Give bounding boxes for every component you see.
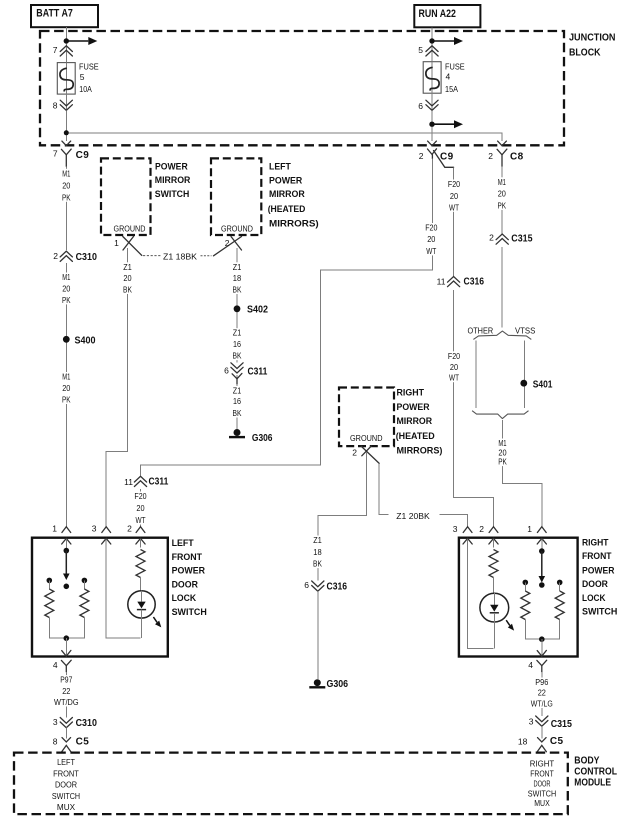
svg-text:PK: PK (62, 295, 71, 305)
svg-text:20: 20 (62, 383, 70, 393)
svg-text:POWER: POWER (172, 566, 206, 576)
svg-text:22: 22 (62, 686, 70, 696)
svg-text:3: 3 (529, 717, 534, 727)
svg-text:WT: WT (426, 246, 436, 256)
ground connector X pin 2 of left mirror (214, 237, 242, 256)
svg-text:1: 1 (52, 524, 57, 534)
ground G306 (upper) (229, 429, 273, 444)
wire Z1 20 BK from mirror switch ground down to left switch pin 3 (106, 248, 127, 527)
svg-text:8: 8 (53, 101, 58, 111)
svg-text:20: 20 (136, 503, 144, 513)
svg-text:FRONT: FRONT (53, 769, 79, 779)
svg-text:C316: C316 (464, 276, 485, 287)
svg-text:11: 11 (437, 277, 446, 287)
body control module dashed box (14, 753, 568, 815)
svg-text:SWITCH: SWITCH (52, 791, 80, 801)
wire P97 22 WT/DG (65, 672, 67, 718)
svg-text:DOOR: DOOR (55, 780, 77, 790)
svg-text:C9: C9 (76, 150, 90, 161)
wire C310-3 to C5 (65, 728, 67, 739)
svg-text:FUSE: FUSE (79, 62, 99, 72)
label P96 22 WT/LG (529, 677, 555, 709)
wire C316-6 down to G306 (317, 591, 319, 679)
svg-text:20: 20 (498, 189, 506, 199)
svg-text:5: 5 (418, 45, 423, 55)
svg-text:C9: C9 (440, 152, 454, 163)
junction block dashed boundary (40, 31, 564, 145)
left switch pin 3 (92, 524, 111, 545)
wire node down to C9 (431, 127, 433, 141)
label Z1 16 BK (231, 328, 244, 361)
right front power door lock switch box (459, 538, 578, 657)
left front door switch mux label (52, 757, 80, 812)
connector C315 pin 3 chevrons (529, 716, 573, 730)
svg-text:BLOCK: BLOCK (569, 46, 601, 58)
ground connector X pin 1 of mirror switch (114, 237, 142, 256)
left power mirror label (268, 162, 319, 230)
svg-text:7: 7 (53, 45, 58, 55)
left switch pin 1 (52, 524, 71, 545)
wire M1 20 PK from C8 down to VTSS split (501, 166, 503, 327)
label F20 20 WT (423, 223, 439, 256)
BCM label (574, 755, 617, 789)
power mirror switch label (155, 162, 191, 201)
cross feed wire to C8 (horizontal) (66, 133, 502, 141)
svg-text:15A: 15A (445, 84, 458, 94)
pin 8 connector chevrons (53, 100, 73, 110)
svg-text:SWITCH: SWITCH (528, 788, 556, 798)
pin 5 connector chevrons (418, 45, 438, 56)
svg-text:SWITCH: SWITCH (172, 607, 207, 617)
svg-text:POWER: POWER (582, 566, 615, 576)
svg-text:MIRRORS): MIRRORS) (269, 218, 319, 229)
svg-text:F20: F20 (448, 351, 460, 361)
svg-text:C311: C311 (248, 366, 268, 377)
ground G306 (lower) (309, 679, 348, 690)
svg-text:MIRROR: MIRROR (155, 175, 191, 186)
svg-text:M1: M1 (498, 177, 506, 187)
svg-text:Z1: Z1 (233, 386, 242, 396)
svg-text:18: 18 (233, 273, 242, 283)
svg-text:S400: S400 (75, 336, 96, 347)
svg-text:GROUND: GROUND (221, 223, 253, 233)
splice S400 (63, 336, 96, 347)
svg-text:20: 20 (450, 362, 458, 372)
left front power door lock switch box (32, 538, 168, 657)
battery feed header box BATT A7 (31, 5, 98, 27)
left switch pin 2 (127, 524, 145, 545)
svg-text:C310: C310 (76, 718, 98, 729)
label M1 20 PK (60, 168, 73, 202)
svg-text:6: 6 (304, 580, 309, 590)
wire from BATT A7 into junction block (65, 27, 67, 38)
svg-text:3: 3 (453, 524, 458, 534)
label Z1 20 BK (121, 262, 134, 295)
right switch pin 4 (528, 650, 546, 671)
svg-text:DOOR: DOOR (534, 778, 551, 788)
svg-text:SWITCH: SWITCH (155, 189, 190, 200)
connector C310 pin 3 chevrons (53, 717, 97, 729)
svg-text:11: 11 (124, 477, 133, 487)
wire Z1 20BK to right switch pin 3 (439, 515, 467, 527)
right power mirror dashed box (339, 388, 394, 447)
svg-text:WT: WT (449, 202, 459, 212)
svg-text:4: 4 (446, 72, 451, 82)
svg-text:FUSE: FUSE (445, 61, 465, 71)
svg-text:20: 20 (427, 234, 435, 244)
svg-text:Z1 18BK: Z1 18BK (163, 251, 197, 261)
wire Z1 18 BK from left mirror ground down to G306 (236, 248, 238, 429)
junction node with right arrow (fused run feed) (429, 120, 463, 128)
svg-text:PK: PK (498, 457, 507, 467)
svg-text:GROUND: GROUND (114, 223, 146, 233)
svg-text:MIRROR: MIRROR (269, 189, 305, 200)
svg-text:GROUND: GROUND (350, 433, 383, 443)
right switch resistor bus and output (525, 620, 559, 640)
right front door switch mux label (528, 759, 556, 809)
svg-text:DOOR: DOOR (582, 579, 608, 589)
wire F20 20 WT from C9-2 down, across to C311-11 and left switch pin 2 (141, 159, 433, 527)
wire node to fuse 4 (431, 44, 433, 62)
svg-text:(HEATED: (HEATED (396, 431, 435, 442)
svg-text:RUN A22: RUN A22 (419, 8, 456, 20)
right switch unlock contact + resistor (557, 580, 563, 586)
svg-text:S402: S402 (247, 305, 268, 316)
svg-text:RIGHT: RIGHT (530, 759, 554, 769)
right switch pin 2 (479, 524, 498, 544)
svg-text:DOOR: DOOR (172, 579, 199, 589)
svg-text:16: 16 (233, 396, 241, 406)
svg-text:F20: F20 (134, 491, 146, 501)
connector C315 pin 2 chevrons (489, 232, 533, 247)
svg-text:RIGHT: RIGHT (582, 538, 609, 548)
svg-text:PK: PK (498, 200, 507, 210)
left switch illumination LED (128, 591, 162, 628)
svg-text:2: 2 (53, 251, 58, 261)
svg-text:WT: WT (449, 373, 459, 383)
svg-text:2: 2 (488, 151, 493, 161)
leader dashes to Z1 18BK label (143, 255, 161, 257)
label F20 20 WT (446, 351, 462, 383)
svg-text:20: 20 (123, 273, 131, 283)
label Z1 18 BK (311, 535, 324, 569)
svg-text:POWER: POWER (269, 175, 302, 186)
connector C310 pin 2 chevrons (53, 250, 97, 263)
fuse 5 10A (57, 62, 99, 95)
svg-text:18: 18 (518, 737, 528, 747)
OTHER / VTSS merge brace (bottom) (472, 411, 528, 419)
svg-text:S401: S401 (533, 379, 553, 390)
leader dashes from Z1 18BK to left mirror ground (201, 255, 212, 257)
svg-text:G306: G306 (327, 679, 349, 690)
svg-text:P97: P97 (60, 675, 72, 685)
wire M1 from C9-7 down to left switch pin 1 (65, 166, 67, 526)
svg-text:POWER: POWER (155, 162, 188, 173)
svg-text:16: 16 (233, 339, 241, 349)
svg-text:M1: M1 (62, 272, 70, 282)
svg-text:MUX: MUX (534, 798, 550, 808)
svg-text:F20: F20 (425, 223, 437, 233)
splice S401 (520, 379, 552, 390)
svg-text:6: 6 (418, 101, 423, 111)
svg-text:7: 7 (53, 149, 58, 159)
svg-text:PK: PK (62, 192, 71, 202)
connector C8 pin 2 (488, 141, 523, 166)
right power mirror label (396, 388, 443, 457)
OTHER / VTSS split brace (top) (473, 331, 531, 339)
svg-text:C316: C316 (327, 581, 348, 592)
svg-text:F20: F20 (448, 179, 460, 189)
svg-text:4: 4 (53, 660, 58, 670)
svg-text:(HEATED: (HEATED (268, 204, 306, 215)
label M1 20 PK (496, 438, 509, 467)
wire node to fuse 5 (65, 44, 67, 63)
svg-text:WT: WT (136, 515, 146, 525)
label F20 20 WT (132, 491, 148, 525)
wire pin 8 down to junction node (65, 111, 67, 142)
svg-text:BK: BK (233, 285, 242, 295)
left switch pin 3 internal wire (106, 539, 140, 638)
svg-text:C310: C310 (76, 252, 98, 263)
wire from right mirror ground to Z1 18 BK column (318, 453, 367, 582)
svg-text:LEFT: LEFT (57, 757, 75, 767)
svg-text:18: 18 (313, 547, 322, 557)
svg-text:BK: BK (233, 408, 242, 418)
right switch pin 3 internal wire (468, 539, 494, 648)
wire C315-3 to C5 (541, 726, 543, 739)
branch wire OTHER (475, 341, 477, 408)
svg-text:Z1 20BK: Z1 20BK (396, 511, 430, 521)
svg-text:1: 1 (114, 238, 119, 248)
svg-text:VTSS: VTSS (515, 326, 536, 336)
right switch illumination LED (480, 593, 514, 630)
svg-text:POWER: POWER (397, 402, 430, 413)
svg-text:BK: BK (123, 285, 132, 295)
svg-text:2: 2 (489, 232, 494, 242)
left switch wiper: wire, node, arrow, node (65, 539, 67, 551)
wire P96 22 WT/LG (541, 672, 543, 716)
svg-text:OTHER: OTHER (468, 326, 494, 336)
svg-text:MODULE: MODULE (574, 777, 611, 789)
splice S402 (234, 305, 269, 316)
svg-text:LOCK: LOCK (582, 593, 606, 603)
junction node with right arrow (run feed) (429, 37, 463, 45)
ground connector X pin 2 of right mirror (352, 446, 379, 463)
svg-text:4: 4 (528, 660, 533, 670)
wire fuse 4 to pin 6 (431, 93, 433, 110)
connector C311 pin 11 chevrons (124, 476, 168, 490)
svg-text:MIRRORS): MIRRORS) (397, 446, 443, 457)
branch wire VTSS (523, 341, 525, 408)
wire from RUN A22 into junction block (431, 27, 433, 38)
connector C316 pin 11 chevrons (437, 276, 485, 290)
svg-text:BK: BK (313, 559, 322, 569)
left switch unlock contact + resistor (82, 578, 88, 584)
svg-text:FRONT: FRONT (172, 552, 203, 562)
svg-text:1: 1 (527, 524, 532, 534)
svg-text:20: 20 (450, 191, 458, 201)
svg-text:M1: M1 (62, 372, 70, 382)
svg-text:JUNCTION: JUNCTION (569, 31, 616, 43)
svg-text:Z1: Z1 (123, 262, 132, 272)
wire pin 6 down to junction node (431, 111, 433, 122)
svg-text:2: 2 (225, 238, 230, 248)
svg-text:RIGHT: RIGHT (397, 388, 425, 399)
svg-text:20: 20 (62, 284, 70, 294)
svg-text:2: 2 (479, 524, 484, 534)
wire M1 20 PK from merge to right switch pin 1 (502, 420, 541, 527)
svg-text:WT/DG: WT/DG (54, 697, 79, 707)
connector C316 pin 6 (304, 580, 347, 593)
connector C5 pin 8 (53, 736, 89, 751)
right switch pin 1 (527, 524, 546, 544)
connector C9 pin 7 (left) (53, 141, 89, 166)
label M1 20 PK (60, 372, 73, 405)
connector C5 pin 18 (518, 736, 564, 752)
wire fuse 5 to pin 8 (65, 94, 67, 110)
pin 7 connector chevrons (53, 45, 73, 56)
svg-text:2: 2 (419, 151, 424, 161)
svg-text:BK: BK (233, 351, 242, 361)
svg-text:WT/LG: WT/LG (531, 699, 553, 709)
right switch pin 2 internal wire + resistor (493, 539, 495, 548)
right switch pin 3 (453, 524, 472, 544)
svg-text:PK: PK (62, 395, 71, 405)
svg-text:MUX: MUX (57, 802, 76, 812)
svg-text:LOCK: LOCK (172, 593, 197, 603)
svg-text:G306: G306 (252, 433, 273, 444)
svg-text:2: 2 (127, 524, 132, 534)
svg-text:22: 22 (538, 688, 546, 698)
junction node at cross feed (64, 130, 69, 135)
svg-text:Z1: Z1 (233, 328, 242, 338)
left switch pin 4 (53, 650, 71, 671)
junction block label (569, 31, 616, 58)
left switch lock contact + resistor (47, 578, 53, 584)
svg-text:C311: C311 (149, 477, 169, 488)
svg-text:6: 6 (224, 366, 229, 376)
svg-text:BATT A7: BATT A7 (36, 8, 73, 20)
svg-text:MIRROR: MIRROR (397, 416, 433, 427)
svg-text:C315: C315 (551, 719, 573, 730)
connector C311 pin 6 (224, 363, 268, 384)
svg-text:10A: 10A (79, 84, 92, 94)
right switch label (582, 538, 617, 617)
svg-text:3: 3 (53, 717, 58, 727)
power mirror switch dashed box (101, 158, 151, 235)
svg-text:P96: P96 (535, 677, 548, 687)
wire F20 20 WT branch through C316-11 to right switch pin 2 (454, 167, 494, 526)
svg-text:C8: C8 (510, 152, 524, 163)
svg-text:5: 5 (80, 72, 85, 82)
pin 6 connector chevrons (418, 100, 438, 111)
left switch resistor bus and output (49, 618, 84, 639)
left power mirror dashed box (211, 158, 261, 235)
ignition feed header box RUN A22 (414, 5, 480, 27)
svg-text:SWITCH: SWITCH (582, 607, 617, 617)
svg-text:2: 2 (352, 447, 357, 457)
svg-text:20: 20 (62, 180, 70, 190)
svg-text:LEFT: LEFT (172, 538, 195, 548)
svg-text:C315: C315 (511, 234, 533, 245)
right switch wiper: wire, node, arrow, node (541, 539, 543, 551)
junction node with right arrow (battery feed) (64, 37, 98, 45)
svg-text:3: 3 (92, 524, 97, 534)
label F20 20 WT (446, 179, 462, 212)
right switch lock contact + resistor (523, 580, 529, 586)
left switch pin 2 internal wire + resistor (140, 539, 142, 548)
label Z1 18 BK (231, 262, 244, 295)
svg-text:FRONT: FRONT (530, 769, 554, 779)
svg-text:C5: C5 (76, 736, 90, 747)
svg-text:Z1: Z1 (233, 262, 242, 272)
svg-text:FRONT: FRONT (582, 551, 612, 561)
svg-text:C5: C5 (550, 736, 564, 747)
label P97 22 WT/DG (52, 675, 81, 707)
svg-text:8: 8 (53, 737, 58, 747)
wire from right mirror ground to Z1 20BK leader (379, 463, 388, 514)
left switch label (172, 538, 207, 617)
svg-text:Z1: Z1 (313, 535, 322, 545)
connector C9 pin 2 (right) with split (419, 141, 454, 167)
label Z1 16 BK (231, 386, 244, 419)
svg-text:M1: M1 (62, 168, 70, 178)
svg-text:LEFT: LEFT (269, 162, 291, 173)
label M1 20 PK (496, 177, 509, 211)
label M1 20 PK (60, 272, 73, 305)
fuse 4 15A (423, 61, 465, 93)
